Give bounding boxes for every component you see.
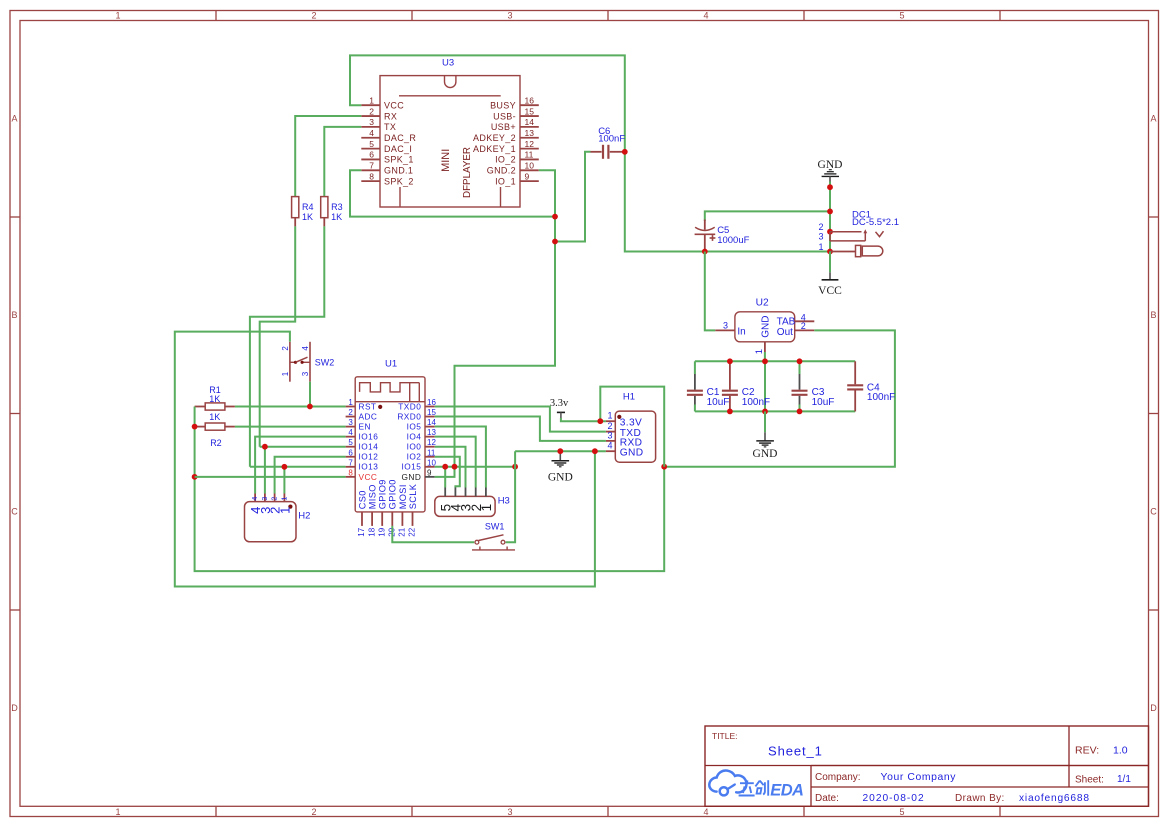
svg-text:GND: GND [548, 472, 573, 484]
svg-text:18: 18 [367, 527, 376, 536]
svg-text:R4: R4 [302, 202, 314, 212]
wire GND vertical to U1 region [455, 217, 556, 467]
svg-text:Sheet_1: Sheet_1 [768, 743, 823, 758]
svg-text:DAC_I: DAC_I [384, 144, 412, 154]
regulator U2 body [735, 297, 796, 341]
U2 pin 1 GND bottom [754, 342, 765, 354]
svg-text:11: 11 [427, 448, 436, 457]
svg-text:C: C [11, 507, 18, 517]
wire U3 VCC pin1 to C6 and DC1 rail [350, 55, 830, 251]
EasyEDA logo [709, 770, 803, 799]
U1 pin 5 IO14 [346, 438, 379, 451]
H2 pin 1 [277, 494, 292, 514]
wire IO0 to H3 pin3 [435, 447, 466, 488]
U1 pin 13 IO4 [407, 428, 437, 441]
svg-text:DFPLAYER: DFPLAYER [462, 147, 473, 198]
power symbol GND below cap bank [753, 411, 778, 460]
wire GND rail to H1 pin4 [515, 450, 606, 452]
U3 pin 3 TX [361, 117, 396, 132]
U3 pin 8 SPK_2 [361, 171, 413, 186]
svg-text:3: 3 [260, 497, 269, 501]
svg-text:U3: U3 [442, 57, 454, 68]
power symbol GND below rail [548, 451, 573, 483]
svg-text:Your Company: Your Company [881, 772, 957, 783]
U1 pin 12 IO0 [407, 438, 437, 451]
wire GPIO0 to SW1 [392, 526, 474, 542]
svg-text:H1: H1 [623, 392, 635, 403]
svg-text:1: 1 [479, 504, 494, 512]
svg-text:RX: RX [384, 111, 397, 121]
svg-text:IO16: IO16 [359, 432, 379, 442]
svg-text:MOSI: MOSI [398, 484, 408, 509]
svg-text:21: 21 [398, 527, 407, 536]
svg-text:3: 3 [507, 11, 512, 21]
svg-text:6: 6 [348, 448, 353, 457]
svg-text:GND: GND [753, 448, 778, 460]
svg-text:1: 1 [369, 95, 374, 105]
wire cap bank left leg [694, 361, 696, 411]
svg-text:R3: R3 [331, 202, 343, 212]
svg-text:9: 9 [525, 171, 530, 181]
junction dots IO15 rail [442, 464, 667, 470]
svg-text:7: 7 [348, 458, 353, 467]
svg-text:RXD0: RXD0 [397, 411, 421, 421]
H1 pin 3 RXD [606, 430, 643, 448]
svg-text:2: 2 [270, 497, 279, 501]
svg-text:1/1: 1/1 [1117, 774, 1131, 785]
svg-text:11: 11 [525, 150, 534, 160]
svg-text:BUSY: BUSY [490, 100, 516, 110]
svg-text:1: 1 [279, 497, 288, 501]
junction dot H1 pin1 [597, 418, 603, 424]
wire branch to C6 left [555, 152, 591, 242]
svg-text:100nF: 100nF [867, 392, 895, 403]
wire H3 pin5 drop [444, 467, 446, 488]
svg-text:3: 3 [607, 430, 612, 440]
svg-text:IO15: IO15 [402, 462, 422, 472]
svg-text:15: 15 [525, 106, 535, 116]
U1 pin 8 VCC [346, 468, 378, 481]
svg-text:GND: GND [760, 315, 771, 337]
svg-text:A: A [11, 114, 17, 124]
wire U1 IO12 to H2 pin2 [275, 457, 346, 494]
U3 pin 5 DAC_I [361, 139, 412, 154]
svg-text:1: 1 [348, 398, 353, 407]
svg-text:1000uF: 1000uF [717, 235, 749, 246]
svg-text:17: 17 [357, 527, 366, 536]
U2 pin 2 Out [795, 321, 815, 331]
junction dots GND rail [557, 448, 597, 454]
svg-text:MISO: MISO [368, 484, 378, 509]
H3 pin 2 [469, 488, 484, 512]
junction dots H2 feeds [262, 444, 287, 470]
ic U3 MINI DFPLAYER body [380, 76, 520, 207]
svg-text:GND: GND [402, 472, 422, 482]
svg-text:B: B [11, 310, 17, 320]
wire U2 pin1 to cap bank rail [764, 352, 766, 361]
svg-text:B: B [1150, 310, 1156, 320]
svg-text:22: 22 [408, 527, 417, 536]
U1 pin 10 IO15 [402, 458, 437, 471]
wire U3 GND.1 pin7 rail [350, 170, 555, 216]
svg-text:3: 3 [507, 807, 512, 817]
frame column numbers top [115, 11, 904, 21]
svg-text:9: 9 [427, 468, 432, 477]
svg-text:TXD0: TXD0 [398, 401, 421, 411]
svg-text:1: 1 [277, 507, 292, 514]
svg-text:GND: GND [620, 448, 644, 459]
svg-text:EDA: EDA [770, 782, 803, 800]
wire U1 IO14 to H2 pin3 and R4 riser [260, 447, 346, 494]
svg-text:SW1: SW1 [485, 521, 505, 531]
wire GND symbol to DC1 [829, 182, 831, 252]
svg-text:1K: 1K [209, 412, 220, 422]
wire U1 IO16 to H2 pin4 [255, 437, 346, 494]
U3 pin 7 GND.1 [361, 161, 413, 176]
wire U1 VCC pin8 to left column [195, 476, 346, 478]
U3 pin 13 ADKEY_2 [473, 128, 539, 143]
H3 pin 1 [479, 488, 494, 512]
svg-text:IO4: IO4 [407, 432, 422, 442]
svg-text:1.0: 1.0 [1113, 745, 1128, 757]
svg-text:2: 2 [801, 321, 806, 331]
svg-text:2: 2 [281, 346, 290, 351]
wire SW2 pin2 to left loop [175, 332, 595, 587]
svg-text:8: 8 [348, 468, 353, 477]
wire SW2 pin3 to RST [309, 382, 311, 407]
U1 pin 20 GPIO0 [388, 479, 398, 537]
svg-text:ADC: ADC [359, 411, 378, 421]
svg-text:IO_2: IO_2 [495, 155, 516, 165]
U1 pin 15 RXD0 [397, 408, 436, 421]
svg-text:GPIO9: GPIO9 [378, 479, 388, 509]
svg-text:GPIO0: GPIO0 [388, 479, 398, 509]
svg-text:10uF: 10uF [707, 397, 730, 408]
capacitor C2 100nF [722, 361, 770, 411]
svg-text:ADKEY_1: ADKEY_1 [473, 144, 516, 154]
svg-text:3: 3 [369, 117, 374, 127]
U3 pin 1 VCC [361, 95, 404, 110]
capacitor C6 100nF [591, 126, 626, 159]
svg-text:SW2: SW2 [315, 358, 335, 368]
U2 pin 4 TAB [795, 313, 815, 323]
title block [705, 726, 1149, 806]
switch SW1 [472, 521, 515, 550]
frame row letters left [11, 114, 18, 714]
wire cap bank top rail [695, 360, 855, 362]
svg-text:IO0: IO0 [407, 442, 422, 452]
wire U3 RX pin2 to R4 [295, 116, 361, 196]
wire cap bank bottom rail [695, 410, 855, 412]
U1 pin 18 MISO [367, 484, 377, 537]
svg-text:GND.2: GND.2 [487, 166, 516, 176]
wire cap bank C2 C3 center legs [765, 361, 800, 411]
svg-text:IO_1: IO_1 [495, 176, 516, 186]
svg-text:SPK_2: SPK_2 [384, 176, 414, 186]
U3 pin 2 RX [361, 106, 397, 121]
svg-text:R2: R2 [210, 438, 222, 448]
svg-text:USB+: USB+ [491, 122, 516, 132]
svg-text:Out: Out [777, 327, 793, 338]
title block texts [712, 731, 1131, 804]
H3 pin 5 [438, 488, 453, 512]
svg-text:IO12: IO12 [359, 452, 379, 462]
svg-text:U2: U2 [756, 297, 769, 308]
wire left pullup column [195, 407, 665, 572]
svg-text:VCC: VCC [384, 100, 404, 110]
svg-text:2: 2 [311, 807, 316, 817]
frame column numbers bottom [115, 807, 904, 817]
svg-text:REV:: REV: [1075, 745, 1099, 757]
frame row letters right [1150, 114, 1157, 714]
svg-text:C: C [1150, 507, 1157, 517]
U1 pin 2 ADC [346, 408, 378, 421]
svg-text:In: In [737, 327, 745, 338]
U1 pin 9 GND [402, 468, 435, 481]
U3 pin 12 ADKEY_1 [473, 139, 539, 154]
svg-text:GND.1: GND.1 [384, 166, 413, 176]
U3 pin 15 USB- [493, 106, 539, 121]
svg-text:1: 1 [281, 371, 290, 376]
U3 pin 14 USB+ [491, 117, 539, 132]
wire R3 to IO13 riser [250, 226, 324, 466]
U3 pin 16 BUSY [490, 95, 539, 110]
svg-text:1K: 1K [331, 212, 342, 222]
wire 3.3v to H1 pin1 [561, 418, 606, 421]
svg-text:1: 1 [754, 349, 765, 354]
junction dots GND/DC1 column [827, 184, 833, 254]
H3 pin 3 [459, 488, 474, 512]
U1 pin 22 SCLK [408, 483, 418, 536]
svg-text:10uF: 10uF [812, 397, 835, 408]
U1 pin 21 MOSI [398, 484, 408, 537]
U1 pin 14 IO5 [407, 418, 437, 431]
svg-text:H2: H2 [298, 511, 310, 522]
svg-text:IO14: IO14 [359, 442, 379, 452]
capacitor C5 1000uF polarized [695, 220, 750, 252]
U1 pin 19 GPIO9 [377, 479, 387, 537]
U2 pin 3 In [715, 321, 735, 331]
connector H1 [615, 392, 655, 463]
U3 pin 10 GND.2 [487, 161, 539, 176]
svg-text:16: 16 [525, 95, 535, 105]
capacitor C4 100nF [847, 361, 895, 411]
svg-text:4: 4 [301, 346, 310, 351]
svg-text:TX: TX [384, 122, 396, 132]
svg-text:8: 8 [369, 171, 374, 181]
svg-text:100nF: 100nF [598, 134, 625, 145]
svg-text:IO2: IO2 [407, 452, 422, 462]
svg-text:3.3v: 3.3v [550, 398, 569, 409]
junction dots U3 GND column [552, 214, 558, 245]
svg-text:USB-: USB- [493, 111, 516, 121]
svg-text:10: 10 [525, 161, 535, 171]
junction dot C5 bottom [702, 249, 708, 255]
svg-text:2: 2 [818, 222, 823, 232]
svg-text:14: 14 [525, 117, 535, 127]
svg-text:1K: 1K [209, 394, 220, 404]
svg-text:EN: EN [359, 422, 371, 432]
svg-text:VCC: VCC [818, 285, 842, 297]
svg-text:13: 13 [525, 128, 535, 138]
wire DC rail to U2 In [705, 252, 715, 331]
svg-text:IO5: IO5 [407, 422, 422, 432]
svg-text:1: 1 [818, 242, 823, 252]
H2 pin 3 [258, 494, 273, 514]
svg-text:ADKEY_2: ADKEY_2 [473, 133, 516, 143]
svg-text:DAC_R: DAC_R [384, 133, 416, 143]
svg-text:4: 4 [607, 441, 612, 451]
svg-text:TITLE:: TITLE: [712, 731, 738, 741]
svg-text:CS0: CS0 [357, 490, 367, 509]
wire GND rail to C5 [705, 211, 830, 221]
svg-text:SPK_1: SPK_1 [384, 155, 414, 165]
U3 pin 6 SPK_1 [361, 150, 413, 165]
svg-text:2020-08-02: 2020-08-02 [863, 793, 925, 804]
power symbol 3.3v [550, 398, 569, 418]
wire TXD0 to H1 pin2 [435, 407, 606, 432]
U1 pin 16 TXD0 [398, 398, 436, 411]
svg-text:4: 4 [369, 128, 374, 138]
svg-text:2: 2 [369, 106, 374, 116]
svg-text:1: 1 [115, 807, 120, 817]
power symbol VCC [818, 252, 842, 298]
U1 pin 1 RST [346, 398, 377, 411]
svg-text:5: 5 [369, 139, 374, 149]
svg-text:4: 4 [703, 807, 708, 817]
svg-text:RST: RST [359, 401, 377, 411]
svg-text:4: 4 [348, 428, 353, 437]
svg-text:5: 5 [899, 11, 904, 21]
U1 pin 4 IO16 [346, 428, 379, 441]
svg-text:IO13: IO13 [359, 462, 379, 472]
svg-text:SCLK: SCLK [408, 483, 418, 509]
wire SW1 to IO15 rail [506, 451, 515, 542]
wire U3 GND.2 pin10 down [539, 170, 555, 216]
wire RXD0 to H1 pin3 [435, 417, 606, 441]
wire IO2 to H3 pin4 [435, 457, 460, 488]
connector H3 [435, 496, 510, 517]
wire IO5 to H3 pin1 [435, 427, 486, 488]
svg-text:4: 4 [703, 11, 708, 21]
wire U1 GND pin9 up to rail [435, 467, 455, 477]
junction dot C6 right [622, 149, 628, 155]
svg-text:H3: H3 [498, 496, 510, 507]
svg-text:19: 19 [377, 527, 386, 536]
U1 pin 7 IO13 [346, 458, 379, 471]
svg-text:MINI: MINI [440, 149, 452, 172]
resistor R4 1K [292, 197, 314, 227]
wire R1 to U1 RST [235, 406, 346, 408]
H1 pin 1 3.3V [606, 411, 642, 429]
svg-text:12: 12 [525, 139, 535, 149]
U3 pin 9 IO_1 [495, 171, 539, 186]
ic U1 ESP module body with antenna [355, 377, 425, 512]
U1 pin 3 EN [346, 418, 371, 431]
wire R4 to IO14 riser [260, 226, 296, 446]
junction dots cap bank [727, 358, 802, 414]
power symbol GND top [818, 159, 843, 182]
wire R2 to U1 EN [235, 426, 346, 428]
U1 pin 17 CS0 [357, 490, 367, 536]
resistor R1 1K [195, 385, 235, 410]
svg-text:Sheet:: Sheet: [1075, 775, 1104, 786]
H1 pin 2 TXD [606, 421, 641, 439]
svg-text:1: 1 [115, 11, 120, 21]
U3 pin 11 IO_2 [495, 150, 539, 165]
svg-text:Date:: Date: [815, 793, 839, 804]
capacitor C3 10uF [792, 374, 835, 408]
svg-text:5: 5 [348, 438, 353, 447]
wire IO15 rail [435, 466, 515, 468]
svg-text:3: 3 [723, 321, 728, 331]
wire IO4 to H3 pin2 [435, 437, 476, 488]
junction dots left column [192, 404, 313, 480]
svg-text:DC-5.5*2.1: DC-5.5*2.1 [852, 217, 899, 228]
svg-text:7: 7 [369, 161, 374, 171]
capacitor C1 10uF [687, 374, 729, 408]
resistor R3 1K [321, 197, 343, 227]
svg-text:3: 3 [348, 418, 353, 427]
resistor R2 1K [195, 412, 235, 448]
wire U1 IO13 to H2 pin1 and R3 riser [250, 467, 346, 494]
H2 pin 4 [248, 494, 263, 514]
svg-text:Company:: Company: [815, 772, 861, 783]
svg-text:VCC: VCC [359, 472, 378, 482]
svg-text:U1: U1 [385, 359, 397, 370]
switch SW2 push button [281, 342, 335, 382]
connector DC1 DC-5.5*2.1 barrel jack [818, 210, 899, 257]
svg-text:100nF: 100nF [742, 397, 770, 408]
connector H2 [245, 502, 311, 542]
svg-text:3: 3 [818, 232, 823, 242]
svg-text:5: 5 [899, 807, 904, 817]
svg-text:4: 4 [250, 497, 259, 501]
U1 pin 6 IO12 [346, 448, 379, 461]
svg-text:A: A [1150, 114, 1156, 124]
svg-text:xiaofeng6688: xiaofeng6688 [1019, 793, 1090, 804]
svg-text:1: 1 [607, 411, 612, 421]
H3 pin 4 [449, 488, 464, 512]
wire U3 TX pin3 to R3 [324, 127, 361, 197]
svg-text:D: D [11, 703, 18, 713]
svg-text:2: 2 [348, 408, 353, 417]
svg-text:3.3V: 3.3V [620, 418, 643, 429]
svg-text:1K: 1K [302, 212, 313, 222]
U1 pin 11 IO2 [407, 448, 436, 461]
svg-text:2: 2 [311, 11, 316, 21]
svg-text:6: 6 [369, 150, 374, 160]
wire U2 Out to GND rail right leg [664, 330, 895, 466]
svg-text:3: 3 [301, 371, 310, 376]
H2 pin 2 [268, 494, 283, 514]
H1 pin 4 GND [606, 441, 644, 459]
svg-text:Drawn By:: Drawn By: [955, 793, 1005, 804]
U1 pin1 marker dot [378, 405, 382, 409]
wire H1 pin1 loop to IO15 rail [600, 387, 664, 467]
U3 pin 4 DAC_R [361, 128, 416, 143]
svg-text:D: D [1150, 703, 1157, 713]
